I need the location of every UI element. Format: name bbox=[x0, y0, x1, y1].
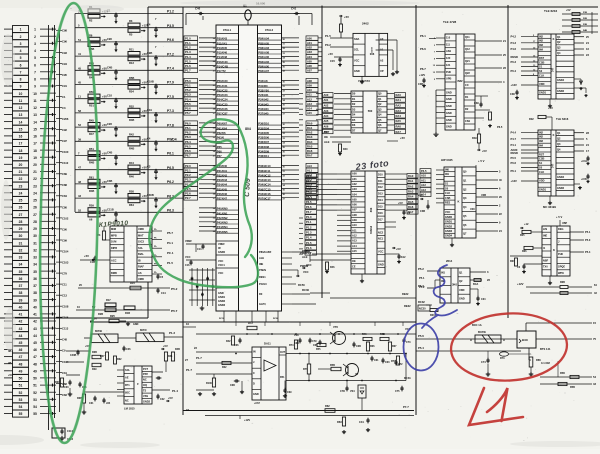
EPROM U4 pin D17 bbox=[377, 222, 385, 224]
svg-text:RA2: RA2 bbox=[307, 131, 313, 135]
capacitor C14 bbox=[202, 244, 204, 246]
wire connector pin 16 to bus bbox=[40, 135, 56, 137]
svg-text:R55: R55 bbox=[316, 348, 321, 351]
net label P1.0 bbox=[305, 215, 317, 219]
svg-text:P33/D06: P33/D06 bbox=[258, 136, 269, 140]
IC 2614 U7 body bbox=[440, 268, 470, 303]
net label RA2 bbox=[407, 184, 418, 188]
resistor R44 bbox=[88, 71, 100, 75]
svg-text:R2B: R2B bbox=[98, 312, 103, 316]
wire pin stub bbox=[436, 37, 445, 39]
svg-text:28: 28 bbox=[19, 220, 23, 224]
wire connector pin 31 to bus bbox=[40, 242, 56, 244]
frame bottom border left section bbox=[0, 317, 148, 319]
svg-text:46: 46 bbox=[33, 348, 37, 352]
svg-text:+5V: +5V bbox=[163, 344, 168, 348]
connector X1 pin 19 bbox=[13, 154, 29, 161]
svg-text:R51: R51 bbox=[89, 147, 94, 151]
connector X1 pin 31 bbox=[13, 239, 29, 246]
TLE6216 U8 pin GND4 bbox=[556, 82, 574, 84]
connector X1 pin 30 bbox=[13, 232, 29, 239]
wire pin stub bbox=[337, 178, 351, 180]
svg-text:D14: D14 bbox=[378, 198, 383, 202]
svg-text:A02: A02 bbox=[307, 46, 312, 50]
capacitor C74 bbox=[487, 358, 489, 360]
svg-text:R51: R51 bbox=[89, 104, 94, 108]
TLE6216 U9 cell bbox=[556, 157, 574, 159]
wire pin stub bbox=[385, 183, 391, 185]
svg-text:C79: C79 bbox=[312, 340, 317, 343]
svg-text:BCA: BCA bbox=[473, 283, 479, 286]
svg-text:VCC: VCC bbox=[218, 259, 224, 263]
connector X1 pin 20 bbox=[13, 161, 29, 168]
TLE6216 U9 pin Q1 bbox=[556, 135, 574, 137]
U12 pin BMB bbox=[110, 275, 124, 277]
svg-text:36: 36 bbox=[19, 277, 23, 281]
resistor R2 ext bbox=[475, 117, 484, 119]
svg-text:GIC3: GIC3 bbox=[138, 240, 145, 244]
svg-text:+5V: +5V bbox=[328, 52, 333, 56]
svg-text:UDD: UDD bbox=[539, 179, 545, 183]
svg-text:15: 15 bbox=[33, 127, 37, 131]
connector X1 pin 29 bbox=[13, 225, 29, 232]
wire connector pin 30 to bus bbox=[40, 235, 56, 237]
svg-text:RC31: RC31 bbox=[404, 376, 411, 380]
svg-text:34: 34 bbox=[19, 263, 23, 267]
wire filter row P6.2 bbox=[75, 197, 183, 199]
TLE4728 U5 pin Q12 bbox=[464, 51, 475, 53]
U12 pin MIM bbox=[110, 231, 124, 233]
svg-text:P56/C26: P56/C26 bbox=[217, 107, 228, 111]
svg-text:RST: RST bbox=[539, 56, 545, 60]
capacitor C40B bbox=[77, 350, 79, 352]
svg-text:R67: R67 bbox=[510, 260, 515, 263]
wire left lm bbox=[66, 374, 80, 376]
TLE6216 U9 pin CSB bbox=[538, 160, 551, 162]
EPROM U4 pin A12 bbox=[351, 237, 365, 239]
connector X1 pin 51 bbox=[13, 382, 29, 389]
svg-text:RIAF: RIAF bbox=[138, 265, 144, 269]
connector X1 pin 12 bbox=[13, 104, 29, 111]
svg-text:C1: C1 bbox=[62, 95, 66, 99]
svg-text:A12: A12 bbox=[352, 234, 357, 238]
U1 pin P33/D06 bbox=[258, 138, 282, 140]
svg-text:P4.5: P4.5 bbox=[421, 169, 427, 173]
resistor R4B bbox=[88, 185, 100, 189]
svg-text:13: 13 bbox=[33, 113, 37, 117]
capacitor C41 bbox=[294, 13, 296, 15]
wire pin stub bbox=[387, 93, 394, 95]
svg-text:U0B: U0B bbox=[481, 193, 486, 197]
U5 ground pin bbox=[436, 95, 445, 97]
svg-text:P52/C22: P52/C22 bbox=[217, 88, 228, 92]
svg-text:21: 21 bbox=[19, 170, 23, 174]
TLE6216 U8 pin Q2 bbox=[556, 44, 574, 46]
EPROM U4 pin OE bbox=[351, 263, 365, 265]
wire pin stub bbox=[385, 199, 391, 201]
connector X1 pin 26 bbox=[13, 204, 29, 211]
svg-text:A01: A01 bbox=[324, 98, 329, 102]
net label P6.3 bbox=[184, 135, 198, 139]
wire U6 output bbox=[476, 230, 498, 232]
svg-text:R76: R76 bbox=[303, 367, 308, 371]
svg-text:P34/D05: P34/D05 bbox=[258, 131, 269, 135]
svg-text:C3: C3 bbox=[147, 165, 151, 169]
svg-text:807/B: 807/B bbox=[95, 329, 102, 333]
net label A12 bbox=[420, 183, 431, 187]
svg-text:D: D bbox=[253, 381, 255, 385]
svg-text:42: 42 bbox=[33, 320, 37, 324]
svg-text:53: 53 bbox=[19, 398, 23, 402]
wire connector pin 27 to bus bbox=[40, 213, 56, 215]
svg-text:GND3: GND3 bbox=[445, 229, 453, 233]
svg-text:NC: NC bbox=[125, 398, 129, 402]
svg-text:R62: R62 bbox=[325, 404, 330, 408]
svg-text:27: 27 bbox=[33, 213, 37, 217]
EPROM U4 pin VCC bbox=[377, 254, 385, 256]
svg-text:38: 38 bbox=[19, 291, 23, 295]
resistor R44 bbox=[128, 165, 140, 169]
capacitor C79 bbox=[309, 338, 311, 340]
U1 pin P34/944 bbox=[258, 109, 282, 111]
net label P1.7 bbox=[305, 251, 317, 255]
svg-text:45: 45 bbox=[19, 341, 23, 345]
svg-text:P5.1: P5.1 bbox=[185, 83, 191, 87]
svg-text:C4B: C4B bbox=[107, 65, 112, 69]
svg-text:P5.6: P5.6 bbox=[185, 107, 191, 111]
svg-text:8: 8 bbox=[34, 78, 36, 82]
svg-text:3: 3 bbox=[34, 42, 36, 46]
svg-text:P7.3: P7.3 bbox=[167, 109, 174, 113]
svg-text:C113: C113 bbox=[62, 327, 69, 331]
svg-text:CSB: CSB bbox=[445, 196, 451, 200]
svg-text:A13: A13 bbox=[352, 239, 357, 243]
wire SCL bbox=[330, 46, 353, 48]
connector X1 pin 17 bbox=[13, 139, 29, 146]
U1 pin P23/941 bbox=[258, 96, 282, 98]
U1 pin P27/047 bbox=[216, 199, 239, 201]
svg-text:U00: U00 bbox=[470, 207, 475, 211]
HIP0045 U6 pin Q0 bbox=[462, 175, 476, 177]
junction bbox=[115, 183, 117, 185]
svg-text:42: 42 bbox=[19, 320, 23, 324]
svg-text:+5V: +5V bbox=[396, 247, 401, 251]
svg-text:GND: GND bbox=[378, 262, 384, 266]
wire connector pin 43 to bus bbox=[40, 327, 56, 329]
wire U7 Q2 bbox=[470, 279, 482, 281]
IC TLE6216 U9 body bbox=[538, 130, 574, 196]
TLE6216 U9 pin UDD bbox=[538, 182, 551, 184]
HIP0045 U6 pin RES bbox=[444, 204, 455, 206]
MC33199 U10 pin NBF bbox=[542, 263, 551, 265]
wire B40 down bbox=[528, 348, 530, 360]
wire row y310 bbox=[76, 309, 170, 311]
svg-text:TLE 6216: TLE 6216 bbox=[556, 117, 569, 121]
wire U8 input P4.6 bbox=[521, 48, 538, 50]
svg-text:Q1: Q1 bbox=[557, 35, 561, 39]
capacitor C4B bbox=[115, 155, 117, 157]
svg-text:P6.7: P6.7 bbox=[420, 67, 426, 71]
svg-text:RA5: RA5 bbox=[408, 200, 414, 204]
svg-text:UBP: UBP bbox=[562, 222, 568, 225]
svg-text:Q1: Q1 bbox=[557, 131, 561, 135]
svg-text:A05: A05 bbox=[352, 197, 357, 201]
svg-text:R1B: R1B bbox=[583, 12, 588, 14]
svg-text:C65: C65 bbox=[313, 344, 318, 347]
wire main rail top bbox=[196, 333, 416, 335]
svg-text:P5.2: P5.2 bbox=[171, 287, 178, 291]
resistor R32 bbox=[114, 356, 117, 364]
74HC573 U3 pin Q3 bbox=[377, 111, 387, 113]
connector X1 pin 50 bbox=[13, 374, 29, 381]
svg-text:VREF: VREF bbox=[218, 242, 225, 246]
capacitor C1B bbox=[94, 256, 96, 258]
svg-text:4: 4 bbox=[34, 49, 36, 53]
U12 pin MPB bbox=[110, 237, 124, 239]
svg-text:C44: C44 bbox=[359, 420, 364, 424]
MC33199 U10 pin J bbox=[557, 244, 570, 246]
U1 pin P61/064 bbox=[216, 129, 239, 131]
wire connector pin 38 to bus bbox=[40, 292, 56, 294]
svg-text:A09: A09 bbox=[352, 218, 357, 222]
svg-text:C11: C11 bbox=[62, 283, 67, 287]
wire U8 input bbox=[521, 66, 538, 68]
svg-text:GND: GND bbox=[354, 69, 360, 73]
resistor R42b bbox=[231, 336, 234, 345]
wire connector pin 40 to bus bbox=[40, 306, 56, 308]
svg-text:37: 37 bbox=[19, 284, 23, 288]
svg-text:P0.3: P0.3 bbox=[511, 60, 517, 64]
svg-text:147: 147 bbox=[552, 67, 555, 72]
junction analog rail bbox=[284, 353, 286, 355]
svg-text:D2: D2 bbox=[352, 102, 356, 106]
net label A05 bbox=[323, 119, 334, 123]
connector bus line B bbox=[54, 25, 56, 418]
wire connector pin 23 to bus bbox=[40, 185, 56, 187]
svg-text:A15: A15 bbox=[352, 249, 357, 253]
capacitor C14b bbox=[157, 288, 159, 290]
wire U8 output bbox=[574, 36, 584, 38]
capacitor C44 bbox=[367, 418, 369, 420]
net label RA0 bbox=[395, 93, 406, 97]
svg-text:130: 130 bbox=[446, 56, 451, 60]
net label AL5 bbox=[306, 187, 318, 191]
net label RA3 bbox=[407, 189, 418, 193]
diode VD8 bbox=[574, 78, 581, 80]
svg-text:RE32: RE32 bbox=[402, 292, 409, 296]
TLE6216 U8 pin RST bbox=[538, 59, 551, 61]
svg-text:R42: R42 bbox=[226, 340, 231, 343]
ground da bbox=[241, 381, 243, 390]
HIP0045 U6 pin Q4 bbox=[462, 210, 476, 212]
svg-text:P4.2: P4.2 bbox=[511, 35, 517, 39]
ground U10 bbox=[549, 276, 551, 281]
svg-text:RA1: RA1 bbox=[408, 179, 414, 183]
wire filter row P7.3 bbox=[75, 112, 183, 114]
U1 pin P04/9C13 bbox=[258, 181, 282, 183]
connector X1 pin 34 bbox=[13, 261, 29, 268]
svg-text:RC10: RC10 bbox=[219, 318, 225, 320]
wire connector pin 26 to bus bbox=[40, 206, 56, 208]
svg-text:CLK: CLK bbox=[539, 170, 544, 174]
bus junction bbox=[52, 184, 54, 187]
wire U9 output bbox=[574, 138, 584, 140]
svg-text:P04/9C16: P04/9C16 bbox=[258, 192, 271, 196]
svg-text:GND1: GND1 bbox=[539, 91, 547, 95]
svg-text:Q22: Q22 bbox=[465, 71, 470, 75]
svg-text:GND4: GND4 bbox=[445, 234, 453, 238]
U1 pin P04/9C14 bbox=[258, 185, 282, 187]
bus junction bbox=[52, 85, 54, 88]
svg-text:AL0: AL0 bbox=[307, 164, 313, 168]
connector X1 pin 25 bbox=[13, 196, 29, 203]
wire pin stub bbox=[436, 197, 444, 199]
svg-text:C7D: C7D bbox=[340, 390, 345, 393]
U1 pin P62/06 bbox=[216, 133, 239, 135]
EPROM U4 pin D14 bbox=[377, 202, 385, 204]
MC33199 U10 pin DEG bbox=[557, 231, 570, 233]
svg-text:P5.0: P5.0 bbox=[185, 79, 191, 83]
connector X1 pin 32 bbox=[13, 246, 29, 253]
U1 pin P07/9C17 bbox=[258, 199, 282, 201]
inductor BX7/E bbox=[475, 335, 501, 343]
svg-text:34: 34 bbox=[33, 263, 37, 267]
wire filter row PWD4 bbox=[75, 140, 183, 142]
junction bbox=[155, 112, 157, 114]
svg-text:SPQE: SPQE bbox=[558, 265, 565, 269]
wire connector pin 11 to bus bbox=[40, 99, 56, 101]
ground arrow bbox=[155, 61, 157, 66]
svg-text:INE: INE bbox=[543, 234, 548, 238]
svg-text:C33: C33 bbox=[64, 386, 69, 389]
resistor R59 bbox=[88, 208, 100, 212]
TLE6216 U8 cell bbox=[556, 76, 574, 78]
wire connector pin 15 to bus bbox=[40, 128, 56, 130]
wire bottom bus bbox=[330, 297, 416, 299]
svg-text:48: 48 bbox=[78, 180, 81, 184]
junction bbox=[155, 84, 157, 86]
EPROM U4 pin GND bbox=[377, 267, 385, 269]
wire pin stub bbox=[385, 173, 391, 175]
wire br row2 bbox=[540, 383, 592, 385]
svg-text:C41: C41 bbox=[291, 7, 297, 11]
connector X1 pin 4 bbox=[13, 47, 29, 54]
svg-text:Q12: Q12 bbox=[465, 47, 470, 51]
svg-text:PP2: PP2 bbox=[143, 372, 148, 376]
connector X1 pin 33 bbox=[13, 253, 29, 260]
TLE6216 U9 pin RST bbox=[538, 155, 551, 157]
EPROM U4 pin A11 bbox=[351, 232, 365, 234]
junction bbox=[115, 41, 117, 43]
resistor R2B bbox=[105, 308, 116, 312]
U1 pin P53/C23 bbox=[216, 96, 239, 98]
svg-text:A08: A08 bbox=[307, 79, 312, 83]
ground lm bottom bbox=[83, 410, 85, 412]
svg-text:Q1: Q1 bbox=[378, 97, 382, 101]
U1 pin P34/943 bbox=[258, 105, 282, 107]
svg-text:R2B: R2B bbox=[583, 18, 588, 20]
svg-text:P1.6: P1.6 bbox=[185, 64, 191, 68]
U1 pin P16/C40 bbox=[216, 62, 239, 64]
driver B40 body bbox=[517, 331, 536, 348]
U1 pin P06/7C15 bbox=[258, 190, 282, 192]
resistor R4B bbox=[88, 157, 100, 161]
wire EEPROM A-pins bbox=[376, 39, 397, 41]
junction analog rail bbox=[367, 353, 369, 355]
svg-text:P4.5: P4.5 bbox=[306, 200, 312, 204]
capacitor C69 bbox=[284, 388, 286, 390]
svg-text:C15: C15 bbox=[330, 59, 335, 63]
LM1815 U11 pin VSS bbox=[142, 398, 152, 400]
EPROM U4 pin A01 bbox=[351, 180, 365, 182]
wire A-bus stub bbox=[318, 37, 322, 39]
wire connector pin 28 to bus bbox=[40, 220, 56, 222]
capacitor C26 bbox=[123, 346, 125, 348]
net label A13 bbox=[306, 102, 318, 106]
wire connector pin 42 to bus bbox=[40, 320, 56, 322]
svg-text:C1B: C1B bbox=[90, 261, 95, 264]
svg-text:PC/G0: PC/G0 bbox=[259, 282, 267, 286]
net label P6.7 bbox=[184, 153, 198, 157]
svg-text:J34: J34 bbox=[106, 402, 111, 405]
U1 pin P44/0N4 bbox=[216, 228, 239, 230]
svg-text:PSEN: PSEN bbox=[302, 249, 310, 253]
wire U9 input P4.1 bbox=[521, 144, 538, 146]
U12 cell bbox=[110, 269, 124, 271]
svg-text:IN2: IN2 bbox=[539, 39, 544, 43]
U1 pin P34/D09 bbox=[258, 152, 282, 154]
capacitor C5 bbox=[157, 274, 159, 276]
svg-text:C14: C14 bbox=[197, 248, 202, 251]
wire main rail low bbox=[286, 380, 406, 382]
74HC573 U3 pin D6 bbox=[351, 127, 363, 129]
U1 pin P64 bbox=[216, 143, 239, 145]
HIP0045 U6 cell bbox=[444, 209, 455, 211]
resistor R56 bbox=[363, 337, 372, 340]
wire pin stub bbox=[117, 376, 124, 378]
svg-text:+5V: +5V bbox=[398, 201, 403, 205]
wire U6 output bbox=[476, 188, 498, 190]
EPROM U4 pin A10 bbox=[351, 227, 365, 229]
svg-text:Q3: Q3 bbox=[557, 142, 561, 146]
MC33199 U10 cell bbox=[557, 250, 570, 252]
capacitor C4B bbox=[115, 70, 117, 72]
frame vertical border x416 bbox=[415, 5, 417, 415]
wire U9 input P0.5 bbox=[521, 157, 538, 159]
svg-text:WPK: WPK bbox=[558, 271, 564, 275]
resistor R41 bbox=[164, 352, 167, 361]
U1 to U3 bus stubs bbox=[299, 93, 303, 95]
svg-text:52: 52 bbox=[78, 208, 81, 212]
svg-text:GND2: GND2 bbox=[445, 224, 453, 228]
svg-text:P1.2: P1.2 bbox=[306, 225, 312, 229]
svg-text:C31: C31 bbox=[89, 402, 94, 405]
wire pin stub bbox=[387, 103, 394, 105]
resistor R61 bbox=[88, 179, 100, 183]
net label AL4 bbox=[306, 182, 318, 186]
wire pin stub bbox=[334, 108, 351, 110]
resistor R66c bbox=[366, 342, 369, 351]
svg-text:VT6: VT6 bbox=[333, 325, 338, 329]
resistor R2 bbox=[88, 15, 100, 19]
ground U9 bbox=[549, 196, 551, 201]
svg-text:P5.0: P5.0 bbox=[585, 238, 591, 242]
svg-text:P17/T2: P17/T2 bbox=[217, 69, 226, 73]
svg-text:P36/D07: P36/D07 bbox=[258, 140, 269, 144]
connector X1 pin 28 bbox=[13, 218, 29, 225]
svg-text:A03: A03 bbox=[352, 187, 357, 191]
IC U12 stubs right bbox=[152, 230, 162, 232]
